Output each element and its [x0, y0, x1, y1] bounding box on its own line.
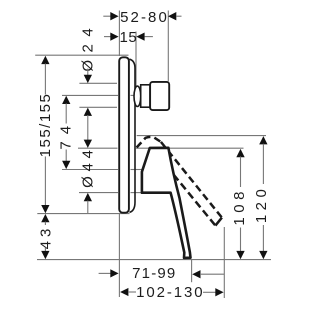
dimension Ø44 — [80, 140, 97, 214]
svg-text:43: 43 — [38, 225, 55, 250]
extension line: dome front vertical (15 right) — [135, 32, 137, 87]
handle hub and lever (solid position) — [142, 148, 191, 258]
extension line: cartridge axis (74 ref) — [62, 94, 118, 96]
svg-text:71-99: 71-99 — [132, 265, 176, 282]
svg-text:120: 120 — [253, 185, 270, 224]
dimension 120 — [253, 136, 270, 259]
dashed lever lower rail — [174, 175, 216, 226]
extension line: baseline (43,108,120 ref) — [37, 259, 271, 261]
extension line: wall plane vertical bottom (71-99,102-130 left) — [118, 214, 120, 297]
svg-text:15: 15 — [120, 29, 138, 46]
cartridge collar — [134, 86, 141, 106]
dimension 71-99 — [99, 265, 224, 282]
extension line: wall plane vertical (52-80 left) — [118, 11, 120, 57]
extension line: lever foot vertical (71-99 right) — [191, 260, 193, 283]
svg-text:102-130: 102-130 — [136, 284, 204, 301]
cartridge mid section — [141, 85, 150, 107]
dimension 102-130 — [120, 284, 224, 301]
extension line: plate top (155 ref) — [35, 54, 128, 56]
extension line: dashed lever top (120 ref) — [137, 135, 266, 137]
dashed lever tip cap — [215, 218, 222, 226]
svg-text:74: 74 — [58, 119, 75, 150]
svg-text:108: 108 — [231, 187, 248, 226]
svg-text:Ø24: Ø24 — [80, 21, 97, 72]
extension line: dashed lever tip vertical (102-130 right) — [223, 227, 225, 298]
extension line: knob top (Ø24 ref) — [79, 82, 117, 84]
extension line: pivot axis (74 ref) — [62, 169, 118, 171]
svg-text:Ø44: Ø44 — [80, 145, 97, 187]
extension line: hub top (Ø44 and 108 ref) — [78, 147, 118, 149]
extension line: knob bottom (Ø24 ref) — [79, 106, 117, 108]
dimension 43 — [38, 214, 55, 259]
dashed handle hub arc (raised position) — [137, 137, 161, 148]
dome front profile of escutcheon — [130, 59, 136, 212]
dimension 52-80 — [103, 9, 181, 26]
dimension 155/155 — [37, 56, 54, 214]
extension line: plate bottom (155/43 ref) — [37, 213, 129, 215]
dimension 108 — [231, 149, 248, 259]
dimension 74 — [58, 96, 75, 169]
dimension Ø24 — [80, 21, 97, 141]
svg-text:52-80: 52-80 — [120, 9, 169, 26]
dashed lever upper rail — [161, 142, 222, 218]
escutcheon plate (side view) — [119, 57, 129, 212]
svg-text:155/155: 155/155 — [37, 93, 54, 158]
extension line: hub bottom (Ø44 ref) — [79, 192, 118, 194]
extension line: knob end vertical (52-80 right) — [167, 11, 169, 82]
cartridge end cap — [150, 82, 169, 110]
dimension 15 — [104, 29, 153, 46]
